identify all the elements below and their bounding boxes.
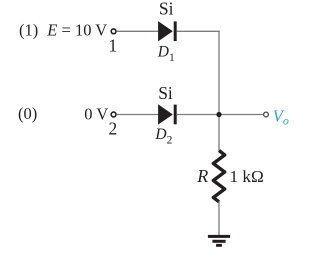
input terminal 2: [111, 112, 116, 117]
label (0) logic input state: [18, 104, 37, 123]
wire vertical from corner down to resistor: [218, 31, 220, 151]
wire resistor to ground: [218, 202, 220, 236]
wire D1 to top corner: [177, 30, 220, 32]
label R: [196, 166, 208, 186]
output terminal: [264, 112, 269, 117]
pin number 2: [109, 119, 118, 139]
ground symbol: [208, 235, 230, 247]
svg-text:1: 1: [109, 35, 118, 55]
label Vo output: [273, 106, 289, 127]
pin number 1: [109, 35, 118, 55]
svg-text:(1): (1): [19, 21, 38, 40]
svg-text:E = 10 V: E = 10 V: [46, 21, 107, 40]
svg-text:1 kΩ: 1 kΩ: [230, 167, 264, 186]
diode D1: [158, 21, 177, 41]
label D2: [154, 126, 172, 147]
label 1 kOhm value: [230, 167, 264, 186]
svg-text:(0): (0): [18, 104, 37, 123]
label Si for D1: [159, 0, 174, 18]
label E = 10 V source value: [46, 21, 107, 40]
wire D2 to output: [177, 114, 264, 116]
svg-text:2: 2: [109, 119, 118, 139]
label D1: [157, 43, 175, 64]
label Si for D2: [158, 83, 173, 103]
label 0 V source value: [84, 104, 108, 123]
svg-text:Si: Si: [158, 83, 173, 103]
diode D2: [158, 104, 177, 124]
label (1) logic input state: [19, 21, 38, 40]
wire input 2 to diode D2: [117, 114, 158, 116]
input terminal 1: [111, 29, 116, 34]
svg-text:R: R: [196, 166, 208, 186]
wire input 1 to diode D1: [117, 30, 158, 32]
junction node dot: [216, 112, 221, 117]
resistor R body zigzag: [213, 151, 224, 202]
svg-text:0 V: 0 V: [84, 104, 108, 123]
svg-text:Si: Si: [159, 0, 174, 18]
